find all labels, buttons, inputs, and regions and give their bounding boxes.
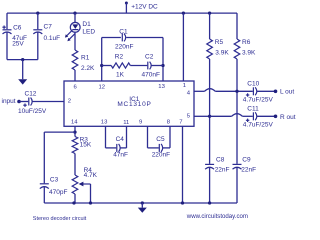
svg-text:www.circuitstoday.com: www.circuitstoday.com bbox=[186, 213, 248, 220]
svg-text:2: 2 bbox=[68, 98, 71, 104]
svg-text:LED: LED bbox=[82, 29, 95, 36]
capacitor C8 bbox=[205, 163, 214, 165]
capacitor C10 bbox=[252, 87, 254, 95]
wire top supply rail bbox=[7, 12, 237, 14]
node R out bbox=[274, 115, 278, 119]
svg-text:L out: L out bbox=[280, 89, 294, 96]
ground arrow left bbox=[21, 58, 24, 61]
svg-text:R2: R2 bbox=[115, 54, 124, 61]
capacitor C5 loop pins 9-8 bbox=[147, 126, 149, 148]
capacitor C9 bbox=[233, 163, 242, 165]
svg-text:3.9K: 3.9K bbox=[242, 50, 256, 57]
svg-text:R5: R5 bbox=[215, 39, 224, 46]
svg-text:R6: R6 bbox=[242, 39, 251, 46]
svg-text:input: input bbox=[2, 98, 16, 105]
wire pin14 junction bbox=[74, 126, 76, 136]
svg-text:+12V DC: +12V DC bbox=[131, 4, 158, 11]
resistor R3 bbox=[72, 137, 78, 154]
wire pin12 loop left vertical bbox=[101, 38, 103, 82]
resistor R6 bbox=[236, 13, 238, 39]
svg-text:D1: D1 bbox=[82, 21, 91, 28]
node L out bbox=[274, 90, 278, 94]
svg-text:22nF: 22nF bbox=[215, 167, 230, 174]
svg-text:4.7uF/25V: 4.7uF/25V bbox=[243, 96, 274, 103]
svg-text:C1: C1 bbox=[119, 28, 128, 35]
R4 wiper arrow bbox=[82, 183, 90, 185]
svg-text:1K: 1K bbox=[116, 72, 125, 79]
wire C6-C7 bottom bbox=[7, 59, 38, 61]
svg-text:1: 1 bbox=[183, 83, 186, 89]
svg-text:4.7uF/25V: 4.7uF/25V bbox=[243, 121, 274, 128]
svg-text:C6: C6 bbox=[13, 24, 22, 31]
svg-text:R out: R out bbox=[280, 114, 296, 121]
capacitor C4 loop pins 13-11 bbox=[105, 126, 107, 148]
svg-text:Stereo decoder circuit: Stereo decoder circuit bbox=[33, 216, 87, 222]
svg-text:220nF: 220nF bbox=[152, 152, 170, 159]
capacitor C12 bbox=[28, 98, 30, 106]
svg-text:C9: C9 bbox=[242, 156, 251, 163]
svg-text:13: 13 bbox=[101, 119, 108, 125]
resistor R5 bbox=[208, 11, 211, 14]
LED D1 bbox=[73, 11, 76, 14]
svg-text:C11: C11 bbox=[247, 106, 259, 113]
svg-text:12: 12 bbox=[99, 84, 106, 90]
svg-text:13: 13 bbox=[158, 84, 165, 90]
ground arrow bottom bbox=[141, 201, 144, 204]
wire pin7 to ground rail bbox=[182, 126, 184, 203]
svg-text:11: 11 bbox=[123, 120, 129, 126]
capacitor C3 bbox=[43, 132, 45, 183]
svg-text:4.7K: 4.7K bbox=[84, 172, 98, 179]
svg-text:14: 14 bbox=[71, 120, 78, 126]
svg-text:25V: 25V bbox=[12, 41, 24, 48]
wire pin1 to rail bbox=[182, 11, 185, 14]
resistor R4 (preset) bbox=[72, 175, 78, 194]
resistor R1 bbox=[74, 32, 76, 50]
wire input to C12 bbox=[19, 101, 28, 103]
capacitor C11 bbox=[252, 112, 254, 120]
svg-text:0.1uF: 0.1uF bbox=[44, 35, 61, 42]
capacitor C1 bbox=[121, 34, 123, 42]
svg-text:9: 9 bbox=[139, 119, 142, 125]
wire loop middle path bbox=[100, 64, 103, 67]
svg-text:C5: C5 bbox=[156, 136, 165, 143]
svg-text:C8: C8 bbox=[216, 156, 225, 163]
IC U1 MC1310P box bbox=[64, 81, 194, 126]
svg-text:470pF: 470pF bbox=[49, 189, 67, 196]
svg-text:15K: 15K bbox=[80, 142, 92, 149]
wire loop top path bbox=[102, 37, 121, 39]
capacitor C6 bbox=[6, 13, 8, 29]
svg-text:C10: C10 bbox=[247, 81, 259, 88]
svg-text:7: 7 bbox=[179, 119, 182, 125]
wire pin4 output with hop over R5 bbox=[194, 90, 205, 92]
svg-text:10uF/25V: 10uF/25V bbox=[18, 108, 47, 115]
svg-text:220nF: 220nF bbox=[115, 44, 133, 51]
resistor R2 bbox=[111, 63, 130, 68]
node +12V DC terminal bbox=[125, 2, 128, 5]
svg-text:R1: R1 bbox=[81, 55, 90, 62]
svg-text:470nF: 470nF bbox=[142, 72, 160, 79]
wire pin13 loop right vertical bbox=[162, 38, 164, 82]
svg-text:C3: C3 bbox=[50, 176, 59, 183]
capacitor C7 bbox=[36, 11, 39, 14]
svg-text:22nF: 22nF bbox=[241, 167, 256, 174]
svg-text:3.9K: 3.9K bbox=[215, 50, 229, 57]
wire pin5 output with hop over R6 bbox=[194, 115, 210, 117]
svg-text:C2: C2 bbox=[145, 54, 154, 61]
svg-text:47nF: 47nF bbox=[113, 152, 128, 159]
svg-text:C4: C4 bbox=[116, 136, 125, 143]
wire ground rail bbox=[44, 202, 237, 204]
svg-text:C12: C12 bbox=[25, 90, 37, 97]
svg-text:C7: C7 bbox=[44, 24, 53, 31]
svg-text:2.2K: 2.2K bbox=[81, 65, 95, 72]
svg-text:MC1310P: MC1310P bbox=[117, 101, 151, 108]
capacitor C2 bbox=[147, 62, 149, 70]
